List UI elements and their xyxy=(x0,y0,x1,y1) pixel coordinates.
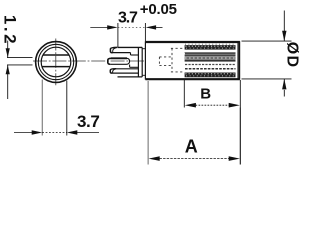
front view slot bottom chord xyxy=(42,66,70,68)
knurl end vertical line xyxy=(237,42,239,80)
cylinder body outline xyxy=(145,41,240,79)
hidden bore dashed lines xyxy=(159,48,184,72)
svg-text:ØD: ØD xyxy=(284,42,300,68)
dimension 1.2 line xyxy=(7,41,33,99)
diameter D top extension line xyxy=(242,40,292,42)
B dimension left extension line xyxy=(183,80,185,108)
front view middle ring xyxy=(38,44,73,79)
bottom 3.7 extension line left xyxy=(41,80,43,136)
B arrow left xyxy=(185,103,196,108)
bottom finger cap inner line xyxy=(113,69,116,73)
fork outline xyxy=(108,47,146,77)
cylinder right face xyxy=(238,41,240,79)
neck bottom edge xyxy=(142,74,145,76)
top finger bottom edge xyxy=(111,52,131,54)
top 3.7 dimension line xyxy=(90,26,162,28)
slot1 step vertical xyxy=(130,53,132,55)
front view outer circle xyxy=(36,42,77,83)
fork top edge xyxy=(118,46,143,48)
A arrow left xyxy=(149,156,160,161)
svg-text:+0.05: +0.05 xyxy=(140,1,177,18)
diameter D dimension line lower xyxy=(283,79,285,97)
svg-text:3.7: 3.7 xyxy=(77,112,99,131)
front view slot top chord xyxy=(43,54,69,56)
dimension 1.2 arrow upper xyxy=(6,48,10,57)
knurled section texture xyxy=(185,42,238,80)
A dimension right extension line xyxy=(239,108,241,165)
middle finger bottom edge xyxy=(110,63,126,65)
dimension 1.2 arrow lower xyxy=(6,65,10,74)
front view hole circle xyxy=(41,47,71,77)
middle finger top edge xyxy=(111,57,127,59)
top 3.7 arrow right xyxy=(146,25,157,29)
A dimension line xyxy=(160,158,230,160)
B dimension line xyxy=(196,104,230,106)
top finger cap inner line xyxy=(113,48,117,53)
B dimension right extension line xyxy=(239,80,241,108)
A dimension left extension line xyxy=(147,81,149,165)
svg-text:3.7: 3.7 xyxy=(118,10,138,27)
B arrow right xyxy=(229,103,240,108)
slot2 step vertical xyxy=(129,65,131,68)
bottom 3.7 arrow left xyxy=(32,130,43,134)
middle finger cap xyxy=(108,58,111,64)
bottom finger bottom edge xyxy=(112,72,138,74)
fork base inner vertical xyxy=(137,47,139,77)
bottom finger top edge xyxy=(116,68,138,70)
middle finger right rounded end xyxy=(127,58,130,64)
top 3.7 arrow left xyxy=(107,25,118,29)
cylinder left face xyxy=(144,41,146,79)
slot1 floor xyxy=(131,54,139,56)
front view vertical centerline xyxy=(55,39,57,87)
top 3.7 right extension line above cylinder xyxy=(144,23,146,41)
A arrow right xyxy=(229,156,240,161)
fork base right vertical xyxy=(141,47,143,77)
bottom 3.7 extension line right xyxy=(66,81,68,136)
side view fork: top extension line xyxy=(117,23,119,48)
neck top edge xyxy=(142,48,145,50)
cylinder bottom edge xyxy=(145,78,240,80)
top finger cap xyxy=(110,47,117,52)
bottom finger cap xyxy=(110,69,116,73)
bottom 3.7 dimension line xyxy=(14,132,99,134)
bottom 3.7 arrow right xyxy=(67,130,78,134)
svg-text:B: B xyxy=(200,86,211,103)
diameter D dimension line upper xyxy=(283,11,285,42)
fork bottom edge xyxy=(118,76,143,78)
cylinder top edge xyxy=(145,41,240,43)
svg-text:A: A xyxy=(185,137,198,157)
slot2 floor xyxy=(130,66,139,68)
diameter D arrow top xyxy=(282,31,286,42)
diameter D bottom extension line xyxy=(242,78,292,80)
centerline horizontal through both views xyxy=(33,60,146,62)
diameter D arrow bottom xyxy=(282,79,286,90)
svg-text:1.2: 1.2 xyxy=(1,15,20,46)
